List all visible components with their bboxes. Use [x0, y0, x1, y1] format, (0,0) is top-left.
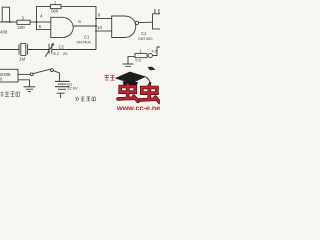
pin 10 wire — [96, 30, 112, 32]
terminal jack — [148, 53, 152, 57]
svg-text:12.6V: 12.6V — [67, 85, 78, 90]
mortarboard flag mark — [148, 67, 156, 71]
pin 9 wire — [96, 18, 112, 20]
label regulator chinese — [1, 92, 20, 98]
wire2 regulator to ground — [18, 80, 30, 87]
trimmer capacitor C2 — [45, 43, 68, 56]
wire main input y22 — [0, 21, 17, 23]
resistor R3 200 — [17, 15, 30, 30]
pin 6 output wire — [73, 25, 96, 27]
ground output stage — [123, 63, 134, 65]
wire R3 to input node — [30, 21, 37, 23]
ground under battery — [57, 93, 65, 98]
resistor R2 560 — [51, 0, 62, 13]
wire feedback left leg — [37, 7, 51, 22]
tassel — [146, 77, 150, 83]
wire gate B output — [139, 21, 153, 23]
resistor R 5.6 output — [135, 49, 147, 63]
svg-text:5.6: 5.6 — [135, 58, 141, 63]
svg-text:200: 200 — [17, 25, 25, 30]
node input junction — [36, 21, 38, 23]
label battery chinese — [75, 97, 96, 102]
watermark logo group — [105, 67, 164, 113]
divider box T1 (clipped right) — [153, 14, 162, 29]
wire feedback top right — [61, 7, 96, 19]
nand gate U1a — [51, 17, 73, 37]
svg-text:SN7400: SN7400 — [76, 40, 91, 45]
red character chong 2 — [140, 85, 160, 102]
node vertical bus — [95, 19, 97, 50]
crystal Y1 1M — [19, 43, 28, 61]
wire ground to resistor — [128, 56, 135, 63]
ground under regulator — [24, 86, 36, 88]
pin 5 wire — [37, 22, 51, 30]
red character chong 1 — [118, 84, 138, 101]
nand gate U1b — [112, 16, 136, 38]
wire jack up right — [152, 47, 160, 56]
wire crystal to trimmer — [28, 49, 49, 51]
svg-text:25: 25 — [63, 51, 68, 56]
output bubble — [135, 21, 138, 24]
svg-text:400: 400 — [0, 30, 8, 35]
resistor R1 400 — [0, 7, 10, 34]
wire trimmer to bus — [52, 49, 96, 51]
pin 4 wire — [37, 21, 51, 23]
svg-text:SN7400: SN7400 — [138, 36, 153, 41]
regulator box W308 — [0, 69, 18, 82]
switch S1 — [30, 69, 59, 82]
red small text zhuanti — [105, 75, 115, 80]
svg-text:C2: C2 — [59, 44, 65, 49]
box top stubs — [154, 9, 156, 14]
battery B1 — [55, 81, 78, 90]
svg-text:560: 560 — [51, 9, 59, 14]
svg-text:1M: 1M — [19, 56, 25, 61]
wire1 regulator to switch — [18, 73, 30, 75]
crystal branch wire — [0, 49, 19, 51]
svg-text:8.2: 8.2 — [53, 51, 59, 56]
svg-text:www.cc-e.net: www.cc-e.net — [116, 103, 160, 110]
svg-text:4.5: 4.5 — [152, 49, 157, 53]
junction under R1 — [9, 21, 11, 23]
mortarboard cap — [115, 72, 146, 84]
svg-text:10: 10 — [97, 25, 102, 30]
